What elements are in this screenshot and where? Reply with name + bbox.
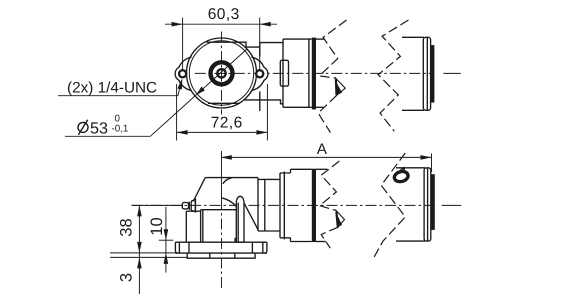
flange tabs: [175, 242, 267, 253]
vertical centerline front view: [221, 32, 223, 115]
dim 10 line: [165, 207, 167, 273]
pin foot: [235, 238, 236, 242]
diameter leader arrowhead: [196, 87, 205, 96]
label UNC leader: [58, 82, 181, 96]
dim 60,3 line: [165, 23, 277, 25]
bottom right piece top edge: [396, 167, 425, 169]
flange tab inner lines: [179, 242, 262, 253]
dim 60,3 right arrow: [260, 22, 271, 27]
rect2 top edge: [316, 38, 325, 40]
dim 38 line: [138, 205, 140, 253]
reference line flange bottom: [110, 252, 176, 254]
flange face vertical: [259, 43, 261, 111]
dim 72,6 left extension: [176, 84, 178, 141]
right end piece bottom edge: [402, 109, 424, 111]
bottom chord of square body: [208, 102, 240, 104]
dim 38 top arrow: [137, 205, 142, 216]
housing slope: [193, 177, 205, 201]
housing top edge: [205, 177, 258, 179]
angled block diagonal: [244, 203, 258, 230]
housing top curve 1: [223, 178, 232, 184]
dim 3 lower arrow (pointing up): [137, 257, 142, 268]
label UNC arrowhead: [177, 78, 182, 89]
end cap inner line: [426, 38, 428, 111]
thick band bottom view: [312, 169, 316, 242]
dim 60,3 right extension: [259, 18, 261, 70]
thick seal band: [312, 38, 316, 110]
dia symbol: [78, 120, 88, 135]
reference line plate bottom: [110, 256, 188, 258]
dim 60,3 left arrow: [172, 22, 183, 27]
dim 3 line: [138, 253, 140, 294]
outer flange circle: [187, 38, 257, 108]
bleed screw cone: [191, 199, 195, 212]
break zigzag 4: [374, 153, 406, 258]
svg-text:38: 38: [118, 218, 136, 236]
vertical centerline lower dashed: [221, 199, 223, 290]
body seam double: [201, 210, 203, 243]
diameter leader diagonal: [150, 49, 247, 136]
section S2 bottom edge: [258, 230, 280, 232]
break zigzag 2: [378, 20, 408, 131]
center thick ring: [211, 62, 233, 84]
dim 72,6 line: [177, 131, 268, 133]
svg-text:-0,1: -0,1: [112, 123, 129, 134]
dim 72,6 right arrow: [256, 130, 267, 135]
left ear outline: [175, 57, 191, 91]
bleed screw rings: [189, 201, 191, 210]
after band top edge: [316, 168, 328, 170]
neck bottom edge: [245, 100, 284, 104]
dim A right extension: [431, 154, 433, 173]
housing top curve 2: [222, 198, 237, 207]
port ellipse bold: [393, 170, 409, 183]
neck top edge left segment: [207, 42, 260, 47]
big section top edge: [291, 168, 312, 170]
svg-text:10: 10: [148, 217, 166, 235]
big section top/bottom 283-291: [280, 173, 291, 238]
break zigzag 1: [319, 20, 346, 78]
right ear outline: [251, 57, 267, 91]
svg-text:60,3: 60,3: [208, 6, 240, 23]
dim A left arrow: [221, 155, 232, 160]
break zigzag 3 upper: [320, 161, 340, 211]
svg-text:(2x) 1/4-UNC: (2x) 1/4-UNC: [67, 79, 157, 96]
dim 60,3 left extension: [182, 18, 184, 70]
right ear bolt hole: [256, 70, 263, 77]
boss on left of rect1: [280, 60, 288, 86]
bottom right piece bottom edge: [396, 240, 425, 242]
end cap inner line bottom: [427, 168, 429, 241]
break zigzag 1 lower: [318, 95, 337, 132]
svg-text:A: A: [317, 141, 328, 158]
pin stadium: [236, 196, 244, 242]
label dia53 leader underline: [65, 135, 150, 137]
horizontal centerline through both top views: [195, 72, 434, 74]
dim 72,6 left arrow: [177, 130, 188, 135]
bottom plate: [187, 253, 255, 258]
centerline tail right top: [444, 72, 461, 74]
svg-text:53: 53: [90, 120, 108, 138]
horizontal centerline bottom view: [132, 204, 436, 206]
svg-text:72,6: 72,6: [211, 115, 243, 132]
big section left face double: [280, 172, 284, 240]
dim A line: [221, 156, 432, 158]
dim 10 upper arrow (pointing down): [164, 229, 169, 240]
neck top edge right segment: [260, 42, 283, 44]
flange top line: [175, 241, 267, 243]
dim 10 tick: [159, 239, 173, 241]
round-bar break triangle top view: [336, 78, 346, 95]
dim 72,6 right extension: [266, 84, 268, 141]
big section bottom edge: [291, 241, 312, 243]
svg-text:3: 3: [118, 273, 136, 282]
plate ticks: [210, 253, 235, 258]
reference line at screw axis: [132, 204, 184, 206]
end cap rear bar bottom: [431, 174, 435, 230]
flange bottom line: [175, 252, 267, 254]
centerline tail right bottom: [442, 204, 462, 206]
lower body left edge: [185, 211, 187, 242]
bleed screw head: [182, 203, 188, 209]
end cap top view: [423, 37, 430, 110]
left ear bolt hole: [179, 70, 186, 77]
main block rect1: [283, 39, 312, 107]
break zigzag 3 lower: [321, 227, 338, 248]
dim 10 lower arrow (pointing up): [164, 253, 169, 264]
right end piece top edge: [402, 36, 424, 38]
end cap bottom view: [424, 168, 431, 241]
housing step line: [201, 209, 237, 211]
vertical centerline bottom view: [221, 151, 223, 199]
wedge at zigzag top edge crossing: [399, 167, 405, 170]
inner flange circle: [189, 41, 253, 105]
dim A right arrow: [421, 155, 432, 160]
dim 38 bottom arrow: [137, 242, 142, 253]
round-bar break triangle bottom view: [336, 211, 344, 228]
lower body top edge: [186, 210, 200, 212]
section S2 left vertical: [258, 178, 265, 231]
after band bottom edge: [316, 241, 326, 243]
rect2 bottom edge: [316, 106, 324, 108]
screw body vertical: [194, 199, 196, 212]
step at 290.8: [290, 169, 292, 241]
end cap rear bar: [431, 45, 435, 102]
center spline bore: [217, 69, 225, 77]
